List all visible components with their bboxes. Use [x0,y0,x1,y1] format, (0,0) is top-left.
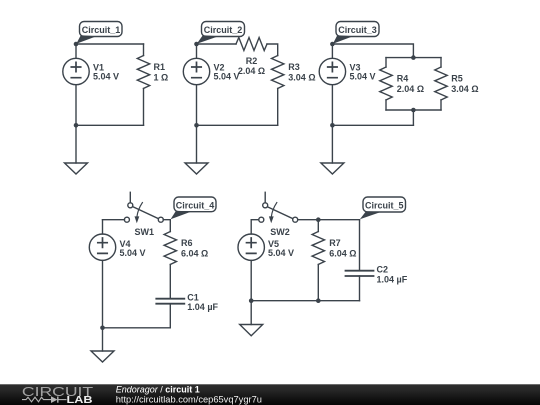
voltage source V1 [63,58,89,84]
resistor R7 [312,232,324,265]
switch SW1 [124,192,163,223]
ground c3 [321,163,344,174]
wire V3 bottom lead [331,85,333,126]
svg-text:1.04 µF: 1.04 µF [187,302,218,312]
svg-text:R5: R5 [451,73,463,83]
voltage source V3 [319,58,345,84]
callout label Circuit_3 [333,22,379,44]
svg-text:LAB: LAB [67,395,93,405]
SW1 arrow [137,203,143,217]
wire ground lead c1 [75,125,77,163]
node c2 bottom [194,123,199,128]
wire V4 top lead [102,220,104,234]
node c1 bottom [74,123,79,128]
svg-text:1.04 µF: 1.04 µF [377,275,408,285]
svg-text:1 Ω: 1 Ω [154,73,169,83]
wire R7 bottom lead [317,265,319,301]
svg-text:6.04 Ω: 6.04 Ω [329,249,356,259]
wire V5 to SW2 [251,219,259,221]
logo resistor-diode line [22,397,67,403]
wire top rail c3 [332,44,413,58]
resistor R3 [272,56,284,89]
wire SW1 to R6 corner [163,220,170,232]
SW2 terminal left [259,217,264,222]
wire bottom rail c5 [251,300,359,302]
wire SW2 to C2 corner [298,219,360,221]
callout label Circuit_1 [76,22,122,44]
SW1 terminal top [128,203,133,208]
svg-text:5.04 V: 5.04 V [214,72,240,82]
resistor R2 [236,38,267,51]
resistor R4 [380,67,392,100]
wire V4 bottom lead [102,260,104,327]
svg-text:R2: R2 [246,56,258,66]
wire V2 bottom lead [196,85,198,126]
node c1 top [74,42,79,47]
wire bottom rail c4 [103,327,171,329]
wire R6 to C1 [169,265,171,299]
node c3 junction bottom [411,108,416,113]
SW2 terminal right [293,217,298,222]
wire R5 bottom lead [440,100,442,110]
svg-text:SW1: SW1 [135,227,155,237]
svg-text:5.04 V: 5.04 V [350,72,376,82]
wire ground lead c4 [102,328,104,351]
callout label Circuit_2 [197,22,245,44]
svg-text:C1: C1 [187,292,199,302]
wire C1 bottom lead [169,304,171,328]
wire bottom rail c1 [76,124,144,126]
node c3 junction top [411,55,416,60]
svg-text:Circuit_3: Circuit_3 [338,25,377,35]
wire V4 to SW1 [103,219,125,221]
resistor R6 [164,232,176,265]
wire SW1 open stub [129,192,131,203]
svg-text:R1: R1 [154,62,166,72]
wire bottom rail c3 [332,124,413,126]
node c5 R7 top [316,217,321,222]
wire c3 center drop [412,110,414,125]
svg-text:Circuit_5: Circuit_5 [365,201,404,211]
callout label Circuit_4 [171,197,216,219]
callout label Circuit_5 [360,197,406,219]
wire C2 bottom lead [359,276,361,301]
svg-text:6.04 Ω: 6.04 Ω [181,249,208,259]
wire R3 bottom lead [277,89,279,126]
svg-text:R6: R6 [181,238,193,248]
resistor R5 [435,67,447,100]
capacitor C2 [346,271,374,276]
svg-text:3.04 Ω: 3.04 Ω [451,84,478,94]
node c2 top [194,42,199,47]
wire ground lead c2 [196,125,198,163]
svg-text:SW2: SW2 [270,227,290,237]
SW1 lever [133,207,159,219]
switch SW2 [259,192,298,223]
wire R5 top lead [440,58,442,67]
capacitor C1 [156,299,184,304]
node c3 bottom [330,123,335,128]
svg-text:3.04 Ω: 3.04 Ω [288,73,315,83]
svg-text:Circuit_4: Circuit_4 [176,200,215,210]
svg-text:2.04 Ω: 2.04 Ω [397,84,424,94]
svg-text:http://circuitlab.com/cep65vq7: http://circuitlab.com/cep65vq7ygr7u [116,394,262,404]
svg-text:C2: C2 [377,265,389,275]
node c3 top [330,42,335,47]
wire V3 top lead [331,44,333,58]
SW2 arrow [271,203,277,217]
wire C2 top lead [359,220,361,271]
wire V5 bottom lead [250,260,252,300]
svg-text:R7: R7 [329,238,341,248]
wire V1 bottom lead [75,85,77,126]
ground c4 [91,351,114,362]
svg-text:2.04 Ω: 2.04 Ω [238,66,265,76]
SW1 terminal left [124,217,129,222]
node c4 bottom [100,326,105,331]
resistor R1 [137,56,149,89]
wire c2 node to R2 [197,43,237,45]
wire R4 top lead [385,58,387,67]
ground c5 [240,325,263,336]
SW1 terminal right [158,217,163,222]
voltage source V2 [183,58,209,84]
wire bottom rail c2 [197,124,278,126]
node c5 bottom left [249,298,254,303]
svg-text:Circuit_1: Circuit_1 [82,25,121,35]
wire V5 top lead [250,220,252,234]
SW2 lever [267,207,293,219]
wire R4 bottom lead [385,100,387,110]
svg-text:R4: R4 [397,73,409,83]
svg-text:5.04 V: 5.04 V [93,72,119,82]
logo diode triangle [51,396,58,403]
ground c1 [65,163,88,174]
svg-text:R3: R3 [288,62,300,72]
wire ground lead c5 [250,301,252,325]
wire R1 bottom lead [143,89,145,126]
ground c2 [185,163,208,174]
wire ground lead c3 [331,125,333,163]
node c5 bottom R7 [316,298,321,303]
wire R2 to corner [267,44,278,56]
wire parallel bottom bar [386,109,441,111]
wire R1 top lead [143,44,145,56]
wire parallel top bar [386,57,441,59]
SW2 terminal top [263,203,268,208]
wire V2 top lead [196,44,198,58]
svg-text:Endoragor / circuit 1: Endoragor / circuit 1 [116,385,200,395]
svg-text:5.04 V: 5.04 V [120,248,146,258]
voltage source V4 [89,234,115,260]
svg-text:Circuit_2: Circuit_2 [204,25,243,35]
svg-text:5.04 V: 5.04 V [268,248,294,258]
wire SW2 open stub [264,192,266,203]
voltage source V5 [238,234,264,260]
wire R7 top lead [317,220,319,232]
wire top rail c1 [76,43,144,45]
wire V1 top lead [75,44,77,58]
